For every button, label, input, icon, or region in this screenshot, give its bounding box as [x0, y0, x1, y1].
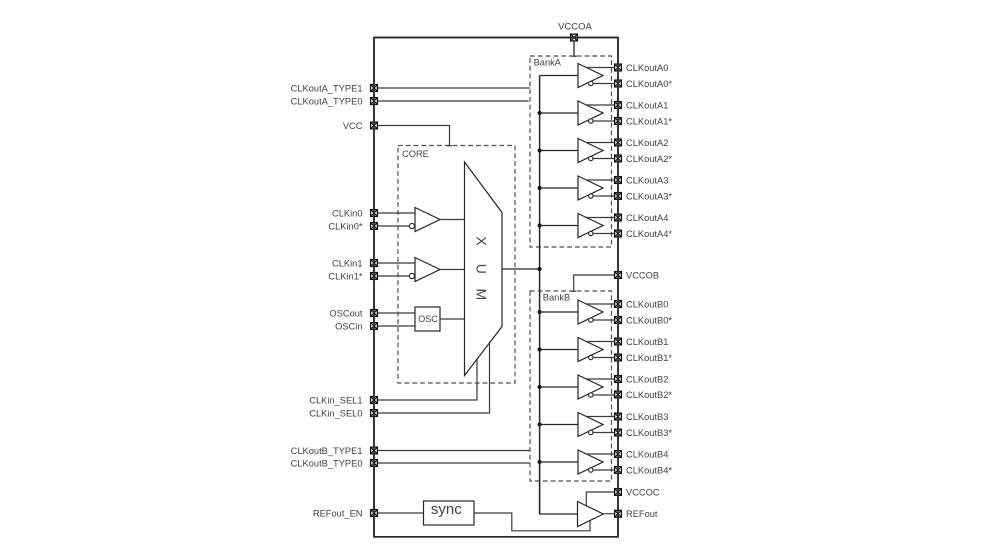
- label OSCin: [335, 321, 362, 331]
- label MUX: [474, 236, 490, 300]
- wire VCC to CORE: [378, 126, 453, 146]
- pin CLKoutB1*: [615, 354, 622, 361]
- output buffer A2: [578, 139, 603, 163]
- wire CLKin0*: [378, 225, 410, 227]
- svg-text:CLKin_SEL1: CLKin_SEL1: [309, 395, 362, 405]
- label BankB: [543, 293, 570, 303]
- label REFout_EN: [313, 508, 363, 518]
- svg-text:CLKoutA3: CLKoutA3: [626, 175, 668, 185]
- pin CLKoutB1: [615, 338, 622, 345]
- pin REFout: [615, 510, 622, 517]
- output buffer A4: [578, 214, 603, 238]
- svg-text:CLKoutB4*: CLKoutB4*: [626, 465, 672, 475]
- output buffer A0: [578, 64, 603, 88]
- wire buffer B0 inverted output: [593, 319, 614, 321]
- svg-text:X: X: [474, 236, 490, 246]
- pin CLKoutA3: [615, 177, 622, 184]
- wire bus to buffer A1: [540, 112, 578, 114]
- wire CLKoutA_TYPE1 to BankA: [378, 87, 531, 89]
- label CLKoutB0*: [626, 315, 672, 325]
- pin CLKoutB0: [615, 301, 622, 308]
- svg-text:CLKin0: CLKin0: [332, 208, 363, 218]
- label CLKoutA4*: [626, 229, 672, 239]
- CORE box: [398, 146, 515, 384]
- svg-text:CLKoutA1: CLKoutA1: [626, 100, 668, 110]
- input buffer CLKin1: [409, 258, 440, 282]
- label CLKoutB3*: [626, 428, 672, 438]
- pin VCCOB: [615, 272, 622, 279]
- wire bus to buffer A2: [540, 150, 578, 152]
- pin CLKoutA_TYPE1: [371, 85, 378, 92]
- output buffer B3: [578, 413, 603, 437]
- svg-text:CLKoutB2: CLKoutB2: [626, 374, 668, 384]
- label CLKoutA1: [626, 100, 668, 110]
- svg-text:U: U: [474, 264, 490, 274]
- svg-text:CLKoutA2*: CLKoutA2*: [626, 154, 672, 164]
- input buffer CLKin0: [409, 208, 440, 232]
- label CLKoutB_TYPE0: [291, 458, 363, 468]
- wire bus to buffer B4: [540, 461, 578, 463]
- label CLKoutB1: [626, 337, 668, 347]
- wire buffer A3 true output: [586, 179, 614, 181]
- svg-text:VCCOB: VCCOB: [626, 270, 659, 280]
- pin CLKin_SEL0: [371, 410, 378, 417]
- wire buffer A4 true output: [586, 217, 614, 219]
- svg-text:CLKoutB_TYPE0: CLKoutB_TYPE0: [291, 458, 363, 468]
- pin CLKoutA1*: [615, 118, 622, 125]
- svg-text:CLKin_SEL0: CLKin_SEL0: [309, 408, 362, 418]
- label CLKoutA_TYPE0: [291, 96, 363, 106]
- wire CLKin1*: [378, 275, 410, 277]
- svg-text:CLKoutA_TYPE1: CLKoutA_TYPE1: [291, 83, 363, 93]
- wire sync to REFout buffer: [474, 513, 590, 531]
- pin OSCin: [371, 323, 378, 330]
- svg-text:CLKoutA4: CLKoutA4: [626, 213, 668, 223]
- label CLKoutB2: [626, 374, 668, 384]
- svg-text:REFout: REFout: [626, 509, 658, 519]
- label CLKin1*: [328, 271, 362, 281]
- label OSCout: [329, 308, 362, 318]
- pin OSCout: [371, 310, 378, 317]
- svg-text:CLKoutA2: CLKoutA2: [626, 138, 668, 148]
- output buffer A1: [578, 101, 603, 125]
- wire bus to buffer B1: [540, 349, 578, 351]
- label CLKoutB1*: [626, 353, 672, 363]
- pin CLKoutB_TYPE0: [371, 460, 378, 467]
- wire VCCOC to REFout buffer: [586, 492, 614, 506]
- wire VCCOA to BankA: [572, 41, 577, 56]
- svg-text:CLKin0*: CLKin0*: [328, 221, 362, 231]
- svg-text:CLKoutA0*: CLKoutA0*: [626, 79, 672, 89]
- wire buffer A2 true output: [586, 142, 614, 144]
- sync block: [424, 501, 475, 525]
- svg-text:CLKoutA3*: CLKoutA3*: [626, 191, 672, 201]
- svg-text:OSCin: OSCin: [335, 321, 362, 331]
- label CLKoutA0*: [626, 79, 672, 89]
- wire REFout_EN to sync: [378, 512, 424, 514]
- svg-text:CLKoutA0: CLKoutA0: [626, 63, 668, 73]
- output buffer B4: [578, 450, 603, 474]
- wire REFout buffer to pin: [603, 513, 614, 515]
- label CLKoutB3: [626, 412, 668, 422]
- wire buffer B1 true output: [586, 341, 614, 343]
- pin CLKoutB2*: [615, 391, 622, 398]
- svg-text:sync: sync: [431, 501, 462, 518]
- wire buffer A4 inverted output: [593, 233, 614, 235]
- wire OSCout: [378, 312, 416, 314]
- svg-text:CORE: CORE: [402, 149, 429, 159]
- svg-text:CLKoutB1: CLKoutB1: [626, 337, 668, 347]
- pin CLKoutA4: [615, 214, 622, 221]
- wire OSC to MUX: [440, 318, 465, 320]
- wire buffer B2 true output: [586, 378, 614, 380]
- svg-text:VCCOC: VCCOC: [626, 487, 660, 497]
- wire bus to buffer B3: [540, 424, 578, 426]
- label CLKoutA4: [626, 213, 668, 223]
- label CLKoutA3: [626, 175, 668, 185]
- output buffer B0: [578, 300, 603, 324]
- svg-text:CLKoutB4: CLKoutB4: [626, 449, 668, 459]
- wire buffer B1 inverted output: [593, 357, 614, 359]
- svg-text:CLKin1*: CLKin1*: [328, 271, 362, 281]
- svg-text:CLKoutB0: CLKoutB0: [626, 299, 668, 309]
- pin CLKoutA2: [615, 139, 622, 146]
- pin CLKoutB4*: [615, 467, 622, 474]
- pin CLKoutB4: [615, 451, 622, 458]
- label CLKin0: [332, 208, 363, 218]
- wire buffer A2 inverted output: [593, 158, 614, 160]
- label VCCOC: [626, 487, 660, 497]
- REFout buffer: [578, 502, 604, 527]
- wire bus to buffer A3: [540, 187, 578, 189]
- wire CLKin_SEL1 to MUX: [378, 359, 478, 400]
- pin CLKoutB3: [615, 413, 622, 420]
- label CLKin0*: [328, 221, 362, 231]
- wire buffer B3 true output: [586, 416, 614, 418]
- pin CLKin0*: [371, 223, 378, 230]
- wire bus to REFout buffer: [540, 462, 578, 514]
- label VCCOB: [626, 270, 659, 280]
- label CLKoutB_TYPE1: [291, 446, 363, 456]
- BankB box: [530, 291, 612, 481]
- svg-text:OSCout: OSCout: [329, 308, 362, 318]
- wire VCCOB to BankB: [571, 275, 614, 291]
- pin CLKoutA_TYPE0: [371, 98, 378, 105]
- wire buffer A3 inverted output: [593, 195, 614, 197]
- svg-text:M: M: [474, 289, 490, 301]
- pin CLKoutB3*: [615, 429, 622, 436]
- wire buffer B2 inverted output: [593, 394, 614, 396]
- label CLKoutA0: [626, 63, 668, 73]
- svg-text:CLKoutB_TYPE1: CLKoutB_TYPE1: [291, 446, 363, 456]
- pin CLKoutA2*: [615, 155, 622, 162]
- label CLKoutA1*: [626, 116, 672, 126]
- pin CLKin1: [371, 260, 378, 267]
- svg-text:OSC: OSC: [418, 314, 438, 324]
- svg-text:CLKoutA4*: CLKoutA4*: [626, 229, 672, 239]
- wire buffer A1 true output: [586, 104, 614, 106]
- pin VCC: [371, 122, 378, 129]
- svg-text:VCC: VCC: [343, 121, 363, 131]
- output buffer B2: [578, 375, 603, 399]
- wire bus to buffer A0: [540, 75, 578, 77]
- label CLKoutB2*: [626, 390, 672, 400]
- label VCC: [343, 121, 363, 131]
- svg-text:CLKoutB0*: CLKoutB0*: [626, 315, 672, 325]
- wire CLKin0: [378, 212, 416, 214]
- label CORE: [402, 149, 429, 159]
- pin CLKin1*: [371, 273, 378, 280]
- pin REFout_EN: [371, 510, 378, 517]
- label REFout: [626, 509, 658, 519]
- mux MUX: [465, 162, 503, 376]
- label VCCOA: [558, 22, 592, 33]
- label BankA: [534, 57, 562, 67]
- wire buffer A1 inverted output: [593, 120, 614, 122]
- wire bus to buffer B2: [540, 386, 578, 388]
- svg-text:CLKoutB2*: CLKoutB2*: [626, 390, 672, 400]
- output buffer B1: [578, 338, 603, 362]
- wire buffer B4 true output: [586, 453, 614, 455]
- wire output bus: [539, 76, 541, 515]
- bus junction dots: [538, 111, 542, 464]
- label CLKoutA2*: [626, 154, 672, 164]
- label CLKoutB4*: [626, 465, 672, 475]
- wire CLKoutB_TYPE0 to BankB: [378, 462, 531, 464]
- oscillator OSC: [415, 307, 440, 331]
- wire buffer B0 true output: [586, 303, 614, 305]
- wire buffer B3 inverted output: [593, 432, 614, 434]
- wire CLKin1 buffer to MUX: [440, 269, 465, 271]
- svg-text:BankA: BankA: [534, 57, 562, 67]
- chip outline: [374, 38, 618, 537]
- output buffer A3: [578, 176, 603, 200]
- wire CLKoutB_TYPE1 to BankB: [378, 450, 531, 452]
- wire MUX output: [502, 268, 540, 270]
- wire OSCin: [378, 325, 416, 327]
- svg-text:CLKoutA1*: CLKoutA1*: [626, 116, 672, 126]
- chip outline edge: [374, 38, 618, 537]
- wire CLKin0 buffer to MUX: [440, 219, 465, 221]
- label CLKin1: [332, 258, 363, 268]
- pin CLKoutA0*: [615, 80, 622, 87]
- pin CLKoutA0: [615, 64, 622, 71]
- label CLKoutA3*: [626, 191, 672, 201]
- pin CLKoutB_TYPE1: [371, 447, 378, 454]
- pin CLKin0: [371, 210, 378, 217]
- wire bus to buffer A4: [540, 225, 578, 227]
- label CLKin_SEL1: [309, 395, 362, 405]
- pin CLKoutB0*: [615, 317, 622, 324]
- power pin VCCOA: [571, 34, 578, 41]
- pin CLKoutA3*: [615, 193, 622, 200]
- pin VCCOC: [615, 489, 622, 496]
- svg-text:BankB: BankB: [543, 293, 570, 303]
- wire buffer A0 inverted output: [593, 83, 614, 85]
- wire CLKin1: [378, 262, 416, 264]
- svg-text:CLKin1: CLKin1: [332, 258, 363, 268]
- wire buffer A0 true output: [586, 67, 614, 69]
- BankA box: [530, 56, 612, 247]
- wire buffer B4 inverted output: [593, 469, 614, 471]
- svg-text:CLKoutB3: CLKoutB3: [626, 412, 668, 422]
- label CLKoutB4: [626, 449, 668, 459]
- svg-text:VCCOA: VCCOA: [558, 22, 592, 33]
- label CLKoutA_TYPE1: [291, 83, 363, 93]
- label CLKin_SEL0: [309, 408, 362, 418]
- pin CLKoutA1: [615, 102, 622, 109]
- wire CLKin_SEL0 to MUX: [378, 343, 490, 413]
- wire CLKoutA_TYPE0 to BankA: [378, 100, 529, 102]
- svg-text:CLKoutB1*: CLKoutB1*: [626, 353, 672, 363]
- pin CLKoutA4*: [615, 230, 622, 237]
- label CLKoutA2: [626, 138, 668, 148]
- svg-text:CLKoutB3*: CLKoutB3*: [626, 428, 672, 438]
- wire bus to buffer B0: [540, 311, 578, 313]
- label CLKoutB0: [626, 299, 668, 309]
- pin CLKoutB2: [615, 376, 622, 383]
- svg-text:REFout_EN: REFout_EN: [313, 508, 363, 518]
- pin CLKin_SEL1: [371, 397, 378, 404]
- svg-text:CLKoutA_TYPE0: CLKoutA_TYPE0: [291, 96, 363, 106]
